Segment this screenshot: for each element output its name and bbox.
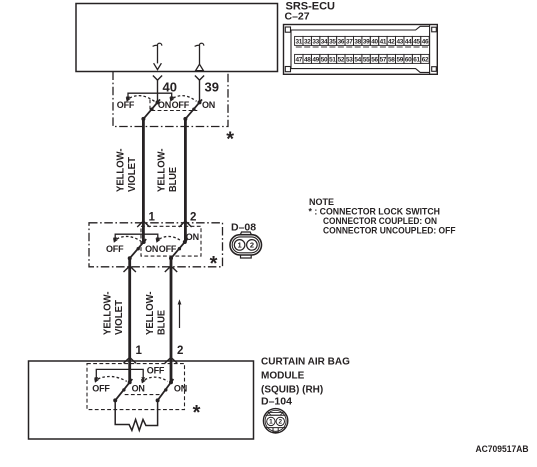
svg-text:48: 48 bbox=[304, 57, 311, 64]
svg-text:*: * bbox=[226, 128, 234, 150]
svg-text:2: 2 bbox=[250, 241, 254, 250]
svg-text:51: 51 bbox=[329, 57, 336, 64]
connector C-27 pins 31-46 bbox=[295, 36, 430, 47]
wire YELLOW-BLUE upper bbox=[184, 119, 187, 242]
svg-text:33: 33 bbox=[312, 39, 319, 46]
svg-text:MODULE: MODULE bbox=[261, 371, 305, 382]
svg-text:OFF: OFF bbox=[117, 100, 135, 110]
connector C-27 pins 47-62 bbox=[295, 54, 430, 63]
NOTE text bbox=[309, 197, 456, 236]
svg-text:44: 44 bbox=[405, 39, 412, 46]
connector D-08 face view bbox=[230, 232, 262, 258]
svg-text:OFF: OFF bbox=[172, 100, 190, 110]
wire YELLOW-BLUE lower bbox=[170, 258, 173, 382]
svg-text:* : CONNECTOR LOCK SWITCH: * : CONNECTOR LOCK SWITCH bbox=[309, 207, 441, 217]
svg-text:VIOLET: VIOLET bbox=[127, 157, 138, 192]
svg-text:56: 56 bbox=[371, 57, 378, 64]
svg-text:YELLOW-: YELLOW- bbox=[103, 292, 114, 336]
svg-text:ON: ON bbox=[174, 383, 187, 393]
svg-text:ON: ON bbox=[202, 100, 215, 110]
OFF contact bracket (ECU switches) bbox=[128, 93, 172, 97]
svg-text:39: 39 bbox=[363, 39, 370, 46]
curtain air bag module box bbox=[29, 361, 254, 439]
svg-text:YELLOW-: YELLOW- bbox=[157, 149, 168, 193]
svg-text:1: 1 bbox=[136, 345, 143, 357]
pin 39 input arrow bbox=[195, 43, 204, 70]
ON-state dashed segment (module switches) bbox=[125, 394, 161, 396]
joint chevron wire1 at D-08 top bbox=[137, 221, 149, 227]
svg-text:54: 54 bbox=[354, 57, 361, 64]
svg-text:AC709517AB: AC709517AB bbox=[476, 444, 529, 455]
svg-text:57: 57 bbox=[380, 57, 387, 64]
switch D-08 pin 1 bbox=[130, 239, 147, 258]
switch at pin 40 bbox=[143, 99, 160, 119]
svg-text:60: 60 bbox=[405, 57, 412, 64]
wire YELLOW-VIOLET lower bbox=[128, 258, 131, 382]
svg-text:38: 38 bbox=[354, 39, 361, 46]
svg-text:49: 49 bbox=[312, 57, 319, 64]
svg-text:BLUE: BLUE bbox=[157, 310, 168, 335]
svg-text:59: 59 bbox=[396, 57, 403, 64]
label YELLOW-BLUE upper bbox=[157, 149, 180, 193]
svg-text:43: 43 bbox=[396, 39, 403, 46]
svg-text:61: 61 bbox=[413, 57, 420, 64]
svg-text:OFF: OFF bbox=[106, 244, 124, 254]
svg-text:52: 52 bbox=[338, 57, 345, 64]
switch D-08 pin 2 bbox=[171, 239, 187, 258]
squib resistor bbox=[115, 400, 157, 430]
svg-text:BLUE: BLUE bbox=[168, 167, 179, 192]
svg-text:CONNECTOR COUPLED: ON: CONNECTOR COUPLED: ON bbox=[323, 216, 437, 226]
svg-text:41: 41 bbox=[380, 39, 387, 46]
label CURTAIN AIR BAG MODULE (SQUIB) (RH) bbox=[261, 357, 350, 396]
OFF contact bracket (D-08 switches) bbox=[115, 234, 158, 238]
label YELLOW-VIOLET lower bbox=[103, 292, 126, 336]
switch at pin 39 bbox=[185, 99, 202, 119]
switch module pin 1 bbox=[115, 379, 132, 400]
wire YELLOW-VIOLET upper bbox=[142, 119, 145, 242]
OFF arc SW pin40 bbox=[130, 96, 155, 102]
svg-text:37: 37 bbox=[346, 39, 353, 46]
svg-text:YELLOW-: YELLOW- bbox=[116, 149, 127, 193]
OFF arc SW pin39 bbox=[173, 96, 196, 102]
svg-text:OFF: OFF bbox=[92, 383, 110, 393]
svg-text:53: 53 bbox=[346, 57, 353, 64]
ON-state dashed outline (D-08 switches) bbox=[141, 226, 201, 256]
OFF arc SW D-08 pin1 bbox=[117, 236, 141, 241]
svg-text:1: 1 bbox=[269, 419, 273, 426]
svg-text:2: 2 bbox=[190, 212, 196, 224]
svg-text:31: 31 bbox=[296, 39, 303, 46]
svg-text:ON: ON bbox=[145, 244, 158, 254]
joint chevron wire2 at D-08 bottom bbox=[165, 266, 177, 272]
ON-state dashed outline (ECU switches) bbox=[150, 100, 197, 111]
svg-text:34: 34 bbox=[321, 39, 328, 46]
connector C-27 body bbox=[284, 25, 438, 75]
svg-text:*: * bbox=[193, 402, 201, 424]
svg-text:ON: ON bbox=[186, 232, 199, 242]
SRS-ECU box bbox=[76, 4, 278, 72]
pin 40 output arrow bbox=[153, 43, 162, 69]
svg-text:39: 39 bbox=[205, 80, 219, 95]
svg-text:CURTAIN AIR BAG: CURTAIN AIR BAG bbox=[261, 357, 350, 368]
svg-text:62: 62 bbox=[422, 57, 429, 64]
svg-text:OFF: OFF bbox=[159, 244, 177, 254]
svg-text:40: 40 bbox=[163, 80, 177, 95]
svg-text:46: 46 bbox=[422, 39, 429, 46]
connector lock switch box at SRS-ECU bbox=[113, 72, 228, 127]
svg-text:VIOLET: VIOLET bbox=[114, 300, 125, 335]
OFF arc module SW2 bbox=[145, 377, 168, 381]
label YELLOW-VIOLET upper bbox=[116, 149, 139, 193]
svg-text:47: 47 bbox=[296, 57, 303, 64]
svg-text:36: 36 bbox=[338, 39, 345, 46]
joint chevron wire1 at module bbox=[124, 357, 136, 363]
joint chevron wire2 at module bbox=[165, 357, 177, 363]
svg-text:CONNECTOR UNCOUPLED: OFF: CONNECTOR UNCOUPLED: OFF bbox=[323, 226, 456, 236]
svg-text:1: 1 bbox=[149, 212, 156, 224]
switch module pin 2 bbox=[158, 379, 174, 400]
svg-text:55: 55 bbox=[363, 57, 370, 64]
svg-text:(SQUIB) (RH): (SQUIB) (RH) bbox=[261, 385, 323, 396]
svg-text:OFF: OFF bbox=[147, 365, 165, 375]
pin 39 terminal bbox=[195, 76, 204, 81]
label YELLOW-BLUE lower bbox=[145, 292, 168, 336]
svg-text:1: 1 bbox=[238, 241, 242, 250]
joint chevron wire1 at D-08 bottom bbox=[124, 266, 136, 272]
svg-text:32: 32 bbox=[304, 39, 311, 46]
OFF arc SW D-08 pin2 bbox=[159, 236, 181, 241]
joint chevron wire2 at D-08 top bbox=[179, 221, 191, 227]
svg-text:42: 42 bbox=[388, 39, 395, 46]
svg-text:ON: ON bbox=[132, 383, 145, 393]
svg-text:*: * bbox=[210, 253, 218, 275]
svg-text:40: 40 bbox=[371, 39, 378, 46]
svg-text:2: 2 bbox=[279, 419, 283, 426]
current direction arrow bbox=[178, 299, 182, 328]
pin 40 terminal bbox=[153, 76, 162, 81]
squib dashed outline bbox=[87, 364, 185, 410]
svg-text:ON: ON bbox=[158, 100, 171, 110]
svg-text:35: 35 bbox=[329, 39, 336, 46]
OFF arc module SW1 bbox=[98, 376, 127, 381]
OFF contact bracket (module switches) bbox=[96, 369, 143, 377]
connector D-08 box bbox=[89, 223, 223, 267]
svg-text:58: 58 bbox=[388, 57, 395, 64]
svg-text:D–104: D–104 bbox=[261, 396, 292, 408]
svg-text:YELLOW-: YELLOW- bbox=[145, 292, 156, 336]
svg-text:NOTE: NOTE bbox=[309, 197, 334, 207]
svg-text:2: 2 bbox=[177, 345, 183, 357]
svg-text:C–27: C–27 bbox=[285, 11, 310, 23]
connector D-104 face view bbox=[263, 409, 287, 433]
svg-text:50: 50 bbox=[321, 57, 328, 64]
svg-text:45: 45 bbox=[413, 39, 420, 46]
